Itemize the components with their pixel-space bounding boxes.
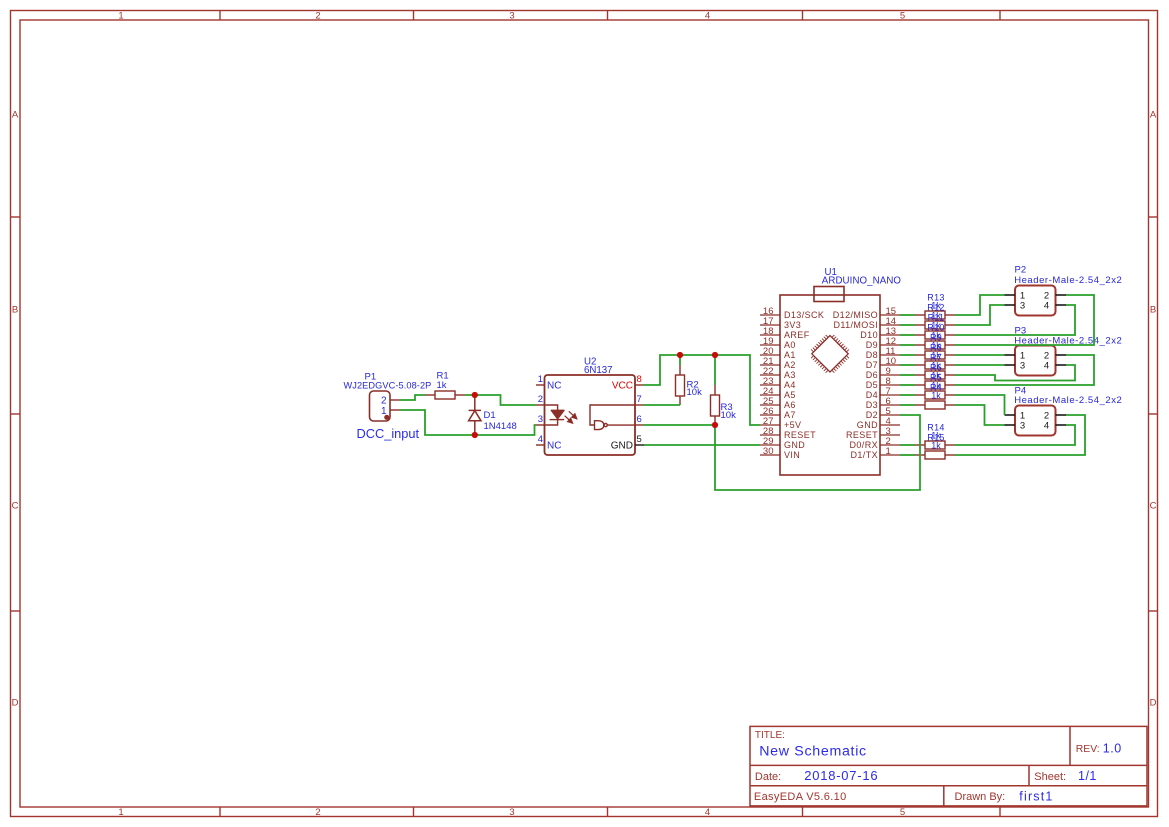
label R9 bbox=[930, 333, 942, 343]
svg-text:VCC: VCC bbox=[612, 380, 633, 391]
wire U1 pin13 to R11 bbox=[900, 334, 915, 336]
svg-text:3: 3 bbox=[1020, 420, 1025, 431]
wire U1 pin2 to R14 bbox=[900, 444, 915, 446]
value 1k R5 bbox=[931, 381, 941, 391]
wire P1.1 to U2 pin3 bbox=[400, 410, 536, 435]
wire U1 pin10 to R8 bbox=[900, 364, 915, 366]
label R6 bbox=[930, 363, 942, 373]
svg-text:REV:: REV: bbox=[1076, 744, 1100, 755]
wire R13 to P2.1 bbox=[955, 295, 1005, 315]
value Header-Male-2.54_2x2 P4 bbox=[1014, 395, 1122, 406]
label R12 bbox=[927, 303, 944, 313]
svg-text:P2: P2 bbox=[1015, 264, 1027, 275]
value 1N4148 bbox=[484, 421, 517, 432]
label R13 bbox=[927, 293, 944, 303]
wire U2 VCC rail bbox=[644, 355, 761, 425]
svg-text:Drawn By:: Drawn By: bbox=[955, 791, 1006, 803]
value 1k R12 bbox=[931, 311, 941, 321]
resistor R15 1k bbox=[915, 451, 955, 459]
value 1k R8 bbox=[931, 351, 941, 361]
svg-text:4: 4 bbox=[705, 807, 710, 818]
junction R3 top bbox=[712, 352, 718, 358]
svg-text:4: 4 bbox=[1044, 420, 1049, 431]
svg-text:D0/RX: D0/RX bbox=[849, 440, 878, 450]
label R14 bbox=[927, 423, 944, 433]
svg-text:A3: A3 bbox=[784, 370, 796, 380]
resistor R7 1k bbox=[915, 371, 955, 379]
resistor R2 10k bbox=[676, 365, 685, 405]
svg-text:GND: GND bbox=[784, 440, 805, 450]
connector P2 Header-Male-2.54_2x2 bbox=[1005, 286, 1067, 316]
value 10k R3 bbox=[721, 410, 737, 421]
svg-text:EasyEDA V5.6.10: EasyEDA V5.6.10 bbox=[754, 791, 847, 803]
junction U2 pin6 bbox=[712, 422, 718, 428]
wire R6 to P3.2 bbox=[955, 355, 1094, 385]
svg-text:C: C bbox=[1150, 501, 1157, 512]
wire R3 top bbox=[714, 355, 716, 385]
wire U1 pin7 to R5 bbox=[900, 394, 915, 396]
wire R5 to P4.1 bbox=[955, 395, 1005, 415]
svg-text:2: 2 bbox=[315, 807, 320, 818]
net label DCC_input bbox=[357, 426, 420, 441]
svg-text:6: 6 bbox=[637, 414, 642, 425]
value 1k R9 bbox=[931, 341, 941, 351]
svg-text:2: 2 bbox=[315, 11, 320, 22]
value ARDUINO_NANO bbox=[822, 276, 902, 287]
svg-text:D: D bbox=[12, 698, 19, 709]
svg-text:Sheet:: Sheet: bbox=[1034, 771, 1066, 783]
wire R15 to P4.2 bbox=[955, 415, 1085, 455]
wire U1 pin6 to R4 bbox=[900, 404, 915, 406]
connector P3 Header-Male-2.54_2x2 bbox=[1005, 346, 1067, 376]
value Header-Male-2.54_2x2 P2 bbox=[1014, 275, 1122, 286]
wire U2 GND to U1 GND bbox=[644, 444, 760, 446]
wire R12 to P2.3 bbox=[955, 305, 1005, 325]
svg-text:first1: first1 bbox=[1019, 790, 1053, 804]
label R7 bbox=[930, 353, 942, 363]
resistor R9 1k bbox=[915, 351, 955, 359]
svg-text:3: 3 bbox=[538, 414, 543, 425]
value Header-Male-2.54_2x2 P3 bbox=[1014, 335, 1122, 346]
svg-text:A4: A4 bbox=[784, 380, 796, 390]
connector P1 WJ2EDGVC-5.08-2P bbox=[370, 391, 401, 421]
junction R2 top bbox=[677, 352, 683, 358]
svg-text:A7: A7 bbox=[784, 410, 796, 420]
svg-text:D9: D9 bbox=[866, 340, 878, 350]
junction D1-bottom bbox=[472, 432, 478, 438]
svg-text:GND: GND bbox=[611, 440, 633, 451]
svg-text:1: 1 bbox=[538, 374, 543, 385]
resistor R5 1k bbox=[915, 391, 955, 399]
svg-text:30: 30 bbox=[763, 446, 774, 457]
value 1k R7 bbox=[931, 361, 941, 371]
svg-text:1: 1 bbox=[118, 807, 123, 818]
resistor R4 1k bbox=[915, 401, 955, 409]
label U2 bbox=[584, 356, 596, 367]
svg-text:8: 8 bbox=[637, 374, 642, 385]
label P4 bbox=[1015, 385, 1027, 396]
svg-text:GND: GND bbox=[857, 420, 878, 430]
svg-text:5: 5 bbox=[900, 807, 905, 818]
svg-text:B: B bbox=[1150, 305, 1156, 316]
svg-text:TITLE:: TITLE: bbox=[755, 730, 785, 741]
svg-text:4: 4 bbox=[705, 11, 710, 22]
value 1k R1 bbox=[437, 380, 447, 391]
svg-text:WJ2EDGVC-5.08-2P: WJ2EDGVC-5.08-2P bbox=[344, 380, 432, 390]
svg-text:D1: D1 bbox=[484, 410, 496, 421]
diode D1 1N4148 bbox=[469, 395, 481, 435]
value 1k R4 bbox=[931, 391, 941, 401]
value 1k R6 bbox=[931, 371, 941, 381]
resistor R8 1k bbox=[915, 361, 955, 369]
value 1k R10 bbox=[931, 331, 941, 341]
svg-text:A: A bbox=[1150, 110, 1157, 121]
wire U1 pin9 to R7 bbox=[900, 374, 915, 376]
svg-text:New Schematic: New Schematic bbox=[759, 744, 867, 760]
svg-text:3: 3 bbox=[509, 11, 514, 22]
svg-text:1: 1 bbox=[886, 446, 891, 457]
connector P4 Header-Male-2.54_2x2 bbox=[1005, 406, 1067, 436]
svg-text:1: 1 bbox=[118, 11, 123, 22]
resistor R11 1k bbox=[915, 331, 955, 339]
svg-text:NC: NC bbox=[547, 440, 561, 451]
label R4 bbox=[930, 383, 942, 393]
svg-text:D4: D4 bbox=[866, 390, 878, 400]
value WJ2EDGVC-5.08-2P bbox=[344, 380, 432, 390]
resistor R3 10k bbox=[711, 385, 720, 425]
svg-text:6N137: 6N137 bbox=[584, 365, 613, 376]
svg-text:A1: A1 bbox=[784, 350, 796, 360]
wire U1 pin1 to R15 bbox=[900, 454, 915, 456]
svg-text:3: 3 bbox=[509, 807, 514, 818]
svg-text:RESET: RESET bbox=[784, 430, 816, 440]
wire R2 top bbox=[679, 355, 681, 365]
svg-text:D1/TX: D1/TX bbox=[850, 450, 878, 460]
wire R4 to P4.3 bbox=[955, 405, 1005, 425]
label R15 bbox=[927, 433, 944, 443]
value 1k R14 bbox=[931, 431, 941, 441]
svg-text:D8: D8 bbox=[866, 350, 878, 360]
svg-text:AREF: AREF bbox=[784, 330, 810, 340]
svg-text:1.0: 1.0 bbox=[1103, 741, 1122, 755]
svg-text:2018-07-16: 2018-07-16 bbox=[804, 768, 878, 783]
svg-text:A2: A2 bbox=[784, 360, 796, 370]
svg-text:A0: A0 bbox=[784, 340, 796, 350]
svg-text:VIN: VIN bbox=[784, 450, 800, 460]
title block bbox=[750, 726, 1147, 806]
svg-text:4: 4 bbox=[1044, 360, 1049, 371]
value 1k R11 bbox=[931, 321, 941, 331]
label P2 bbox=[1015, 264, 1027, 275]
resistor R12 1k bbox=[915, 321, 955, 329]
resistor R6 1k bbox=[915, 381, 955, 389]
svg-text:5: 5 bbox=[637, 434, 642, 445]
svg-text:7: 7 bbox=[637, 394, 642, 405]
svg-text:ARDUINO_NANO: ARDUINO_NANO bbox=[822, 276, 902, 287]
value 1k R15 bbox=[931, 441, 941, 451]
svg-text:Header-Male-2.54_2x2: Header-Male-2.54_2x2 bbox=[1014, 395, 1122, 406]
svg-text:D6: D6 bbox=[866, 370, 878, 380]
svg-text:A6: A6 bbox=[784, 400, 796, 410]
wire R9 to P3.1 bbox=[955, 354, 1005, 356]
svg-text:4: 4 bbox=[1044, 300, 1049, 311]
wire U1 pin12 to R10 bbox=[900, 344, 915, 346]
wire P1.2 to R1 bbox=[400, 395, 425, 400]
value 10k R2 bbox=[687, 387, 703, 398]
wire U2 pin7 to R2 bbox=[644, 404, 681, 406]
label R8 bbox=[930, 343, 942, 353]
label R5 bbox=[930, 373, 942, 383]
wire U1 pin15 to R13 bbox=[900, 314, 915, 316]
svg-text:Date:: Date: bbox=[755, 771, 781, 783]
label R3 bbox=[721, 402, 733, 413]
svg-text:1k: 1k bbox=[931, 391, 941, 401]
value 1k R13 bbox=[931, 301, 941, 311]
svg-text:D7: D7 bbox=[866, 360, 878, 370]
svg-text:10k: 10k bbox=[721, 410, 737, 421]
wire R10 to P2.2 bbox=[955, 295, 1094, 345]
svg-text:1k: 1k bbox=[931, 441, 941, 451]
wire U1 pin8 to R6 bbox=[900, 384, 915, 386]
wire U2 pin6 to U1 D2 bbox=[715, 415, 920, 490]
svg-text:3V3: 3V3 bbox=[784, 320, 801, 330]
wire R14 to P4.4 bbox=[955, 425, 1075, 445]
svg-text:A5: A5 bbox=[784, 390, 796, 400]
svg-text:3: 3 bbox=[1020, 300, 1025, 311]
svg-text:Header-Male-2.54_2x2: Header-Male-2.54_2x2 bbox=[1014, 275, 1122, 286]
svg-text:DCC_input: DCC_input bbox=[357, 426, 420, 441]
svg-text:5: 5 bbox=[900, 11, 905, 22]
svg-text:D5: D5 bbox=[866, 380, 878, 390]
label R11 bbox=[928, 313, 945, 323]
svg-text:D10: D10 bbox=[860, 330, 878, 340]
resistor R1 bbox=[425, 391, 465, 399]
svg-text:C: C bbox=[12, 501, 19, 512]
svg-text:D13/SCK: D13/SCK bbox=[784, 310, 824, 320]
wire R11 to P2.4 bbox=[955, 305, 1075, 335]
wire R1 to U2 pin2 bbox=[465, 395, 536, 405]
svg-text:B: B bbox=[12, 305, 18, 316]
svg-text:D3: D3 bbox=[866, 400, 878, 410]
svg-text:A: A bbox=[12, 110, 19, 121]
label P3 bbox=[1015, 325, 1027, 336]
label R2 bbox=[687, 379, 699, 390]
optocoupler U2 6N137 bbox=[536, 374, 644, 455]
IC U1 ARDUINO_NANO bbox=[760, 287, 900, 476]
wire U1 pin14 to R12 bbox=[900, 324, 915, 326]
svg-text:1N4148: 1N4148 bbox=[484, 421, 517, 432]
wire U1 pin11 to R9 bbox=[900, 354, 915, 356]
label P1 bbox=[365, 371, 377, 382]
junction R1-D1 bbox=[472, 392, 478, 398]
svg-text:3: 3 bbox=[1020, 360, 1025, 371]
label R1 bbox=[437, 370, 449, 381]
svg-text:NC: NC bbox=[547, 380, 561, 391]
wire R8 to P3.3 bbox=[955, 364, 1005, 366]
value 6N137 bbox=[584, 365, 613, 376]
wire U2 pin6 to R3 bbox=[644, 424, 716, 426]
svg-text:D12/MISO: D12/MISO bbox=[833, 310, 878, 320]
svg-text:2: 2 bbox=[538, 394, 543, 405]
resistor R13 1k bbox=[915, 311, 955, 319]
label U1 bbox=[825, 267, 837, 278]
label R10 bbox=[927, 323, 944, 333]
resistor R10 1k bbox=[915, 341, 955, 349]
svg-text:D11/MOSI: D11/MOSI bbox=[833, 320, 878, 330]
svg-text:D2: D2 bbox=[866, 410, 878, 420]
svg-text:RESET: RESET bbox=[846, 430, 878, 440]
svg-text:1/1: 1/1 bbox=[1078, 769, 1097, 783]
label D1 bbox=[484, 410, 496, 421]
svg-text:+5V: +5V bbox=[784, 420, 801, 430]
svg-text:D: D bbox=[1150, 698, 1157, 709]
wire R7 to P3.4 bbox=[955, 365, 1075, 381]
resistor R14 1k bbox=[915, 441, 955, 449]
svg-text:1k: 1k bbox=[437, 380, 447, 391]
svg-text:4: 4 bbox=[538, 434, 543, 445]
svg-text:10k: 10k bbox=[687, 387, 703, 398]
